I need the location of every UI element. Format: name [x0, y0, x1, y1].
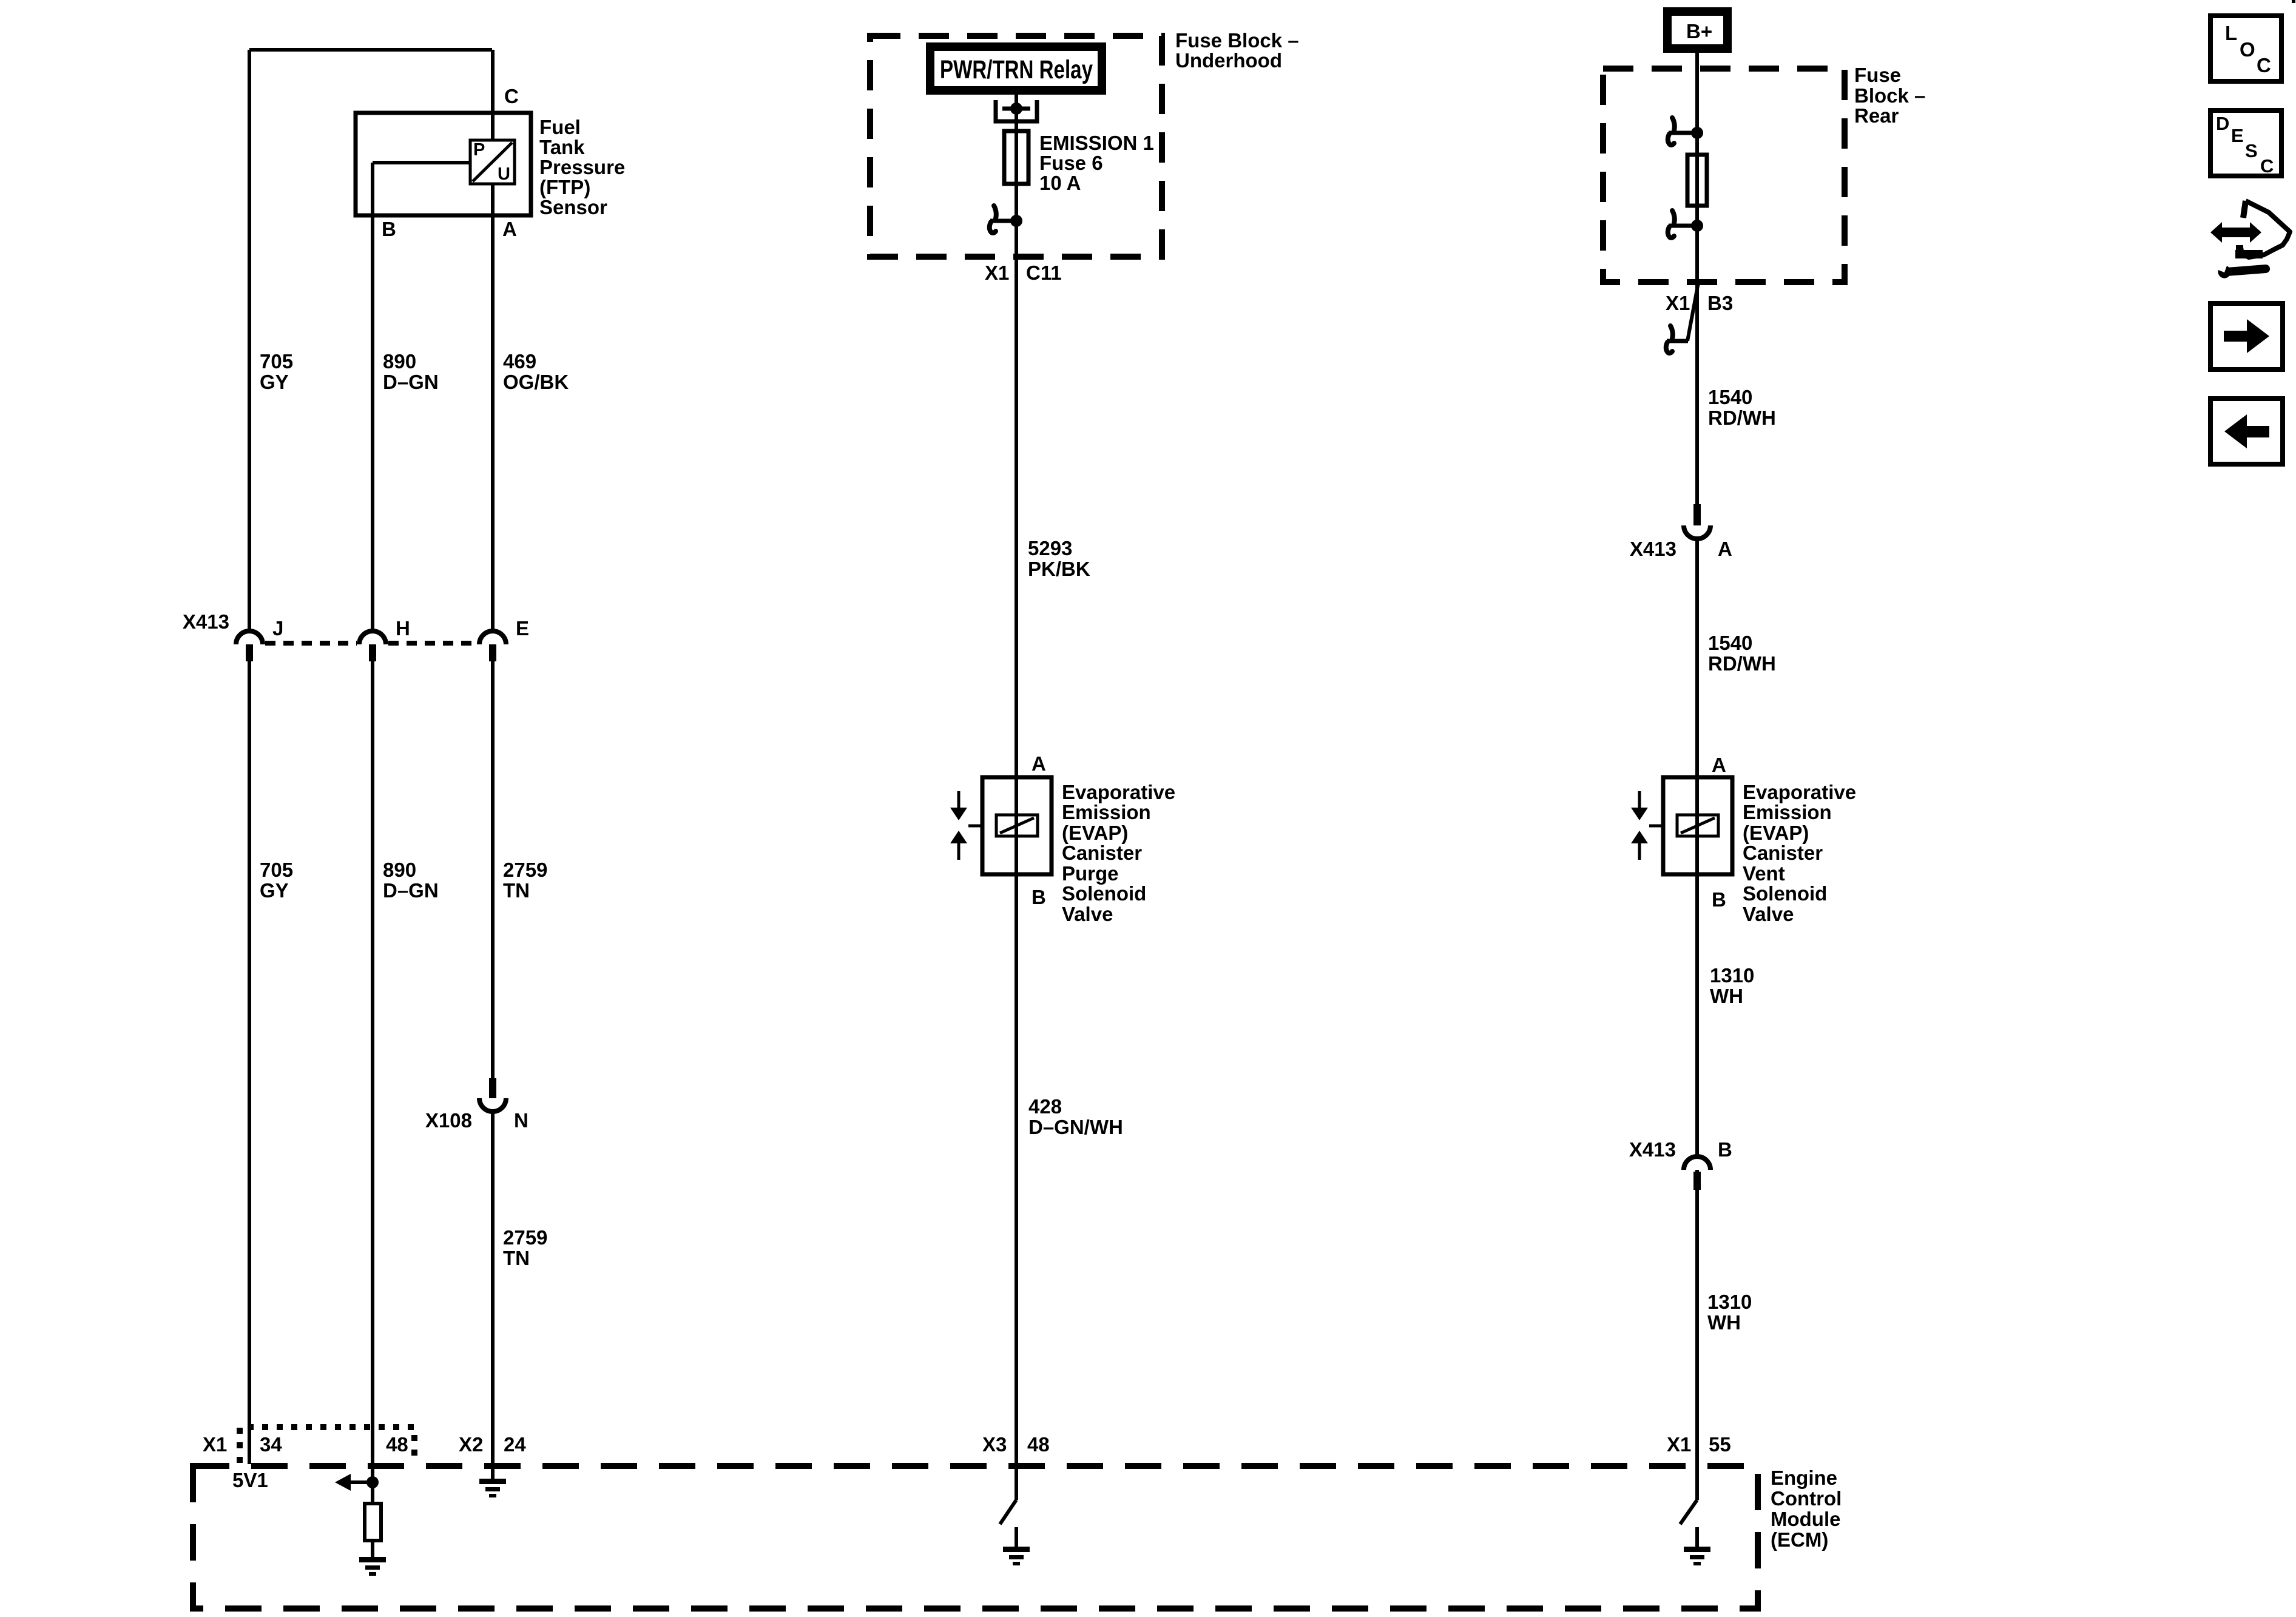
svg-text:D: D [2216, 113, 2229, 134]
svg-text:U: U [498, 164, 510, 184]
svg-text:5293: 5293 [1028, 537, 1072, 559]
svg-text:Fuel: Fuel [539, 116, 581, 138]
svg-text:469: 469 [503, 350, 536, 373]
svg-text:48: 48 [1027, 1433, 1050, 1456]
svg-text:890: 890 [383, 350, 416, 373]
svg-text:L: L [2225, 22, 2237, 44]
svg-text:H: H [396, 617, 410, 640]
svg-text:X413: X413 [1630, 538, 1676, 560]
svg-text:705: 705 [260, 350, 293, 373]
svg-text:24: 24 [504, 1433, 526, 1456]
svg-text:N: N [514, 1109, 528, 1132]
svg-text:X108: X108 [425, 1109, 472, 1132]
svg-text:WH: WH [1707, 1311, 1741, 1334]
svg-text:J: J [272, 617, 283, 640]
svg-text:D–GN/WH: D–GN/WH [1028, 1116, 1123, 1138]
svg-text:X2: X2 [459, 1433, 483, 1456]
svg-text:Engine: Engine [1771, 1467, 1837, 1489]
svg-text:EMISSION 1: EMISSION 1 [1039, 132, 1154, 154]
svg-text:PK/BK: PK/BK [1028, 558, 1090, 580]
svg-text:428: 428 [1028, 1095, 1062, 1118]
svg-text:Vent: Vent [1743, 862, 1785, 885]
svg-text:B: B [1712, 888, 1726, 911]
svg-text:Fuse Block –: Fuse Block – [1175, 29, 1299, 52]
svg-text:1310: 1310 [1707, 1291, 1752, 1313]
svg-text:X3: X3 [982, 1433, 1007, 1456]
svg-text:1540: 1540 [1708, 632, 1752, 654]
svg-text:Emission: Emission [1062, 801, 1151, 823]
svg-text:E: E [2231, 125, 2244, 146]
svg-text:Rear: Rear [1854, 104, 1899, 127]
svg-text:Pressure: Pressure [539, 156, 625, 178]
svg-text:TN: TN [503, 1247, 530, 1269]
svg-text:55: 55 [1709, 1433, 1731, 1456]
svg-text:Solenoid: Solenoid [1062, 882, 1146, 905]
svg-text:B: B [1032, 886, 1046, 908]
svg-text:Fuse 6: Fuse 6 [1039, 152, 1103, 174]
svg-text:GY: GY [260, 879, 289, 902]
svg-text:RD/WH: RD/WH [1708, 652, 1776, 675]
svg-text:E: E [516, 617, 529, 640]
svg-text:10 A: 10 A [1039, 172, 1081, 194]
svg-text:X413: X413 [1629, 1138, 1676, 1161]
svg-text:Control: Control [1771, 1487, 1842, 1510]
svg-text:(FTP): (FTP) [539, 176, 590, 198]
svg-text:B: B [382, 218, 396, 240]
svg-text:TN: TN [503, 879, 530, 902]
svg-text:C: C [2257, 54, 2271, 76]
svg-text:890: 890 [383, 859, 416, 881]
svg-text:Evaporative: Evaporative [1743, 781, 1856, 803]
svg-text:X413: X413 [183, 610, 229, 633]
svg-text:S: S [2245, 140, 2258, 161]
svg-text:X1: X1 [1666, 292, 1690, 314]
svg-text:1310: 1310 [1710, 964, 1754, 987]
svg-text:(EVAP): (EVAP) [1062, 822, 1128, 844]
svg-text:Sensor: Sensor [539, 196, 607, 218]
svg-text:D–GN: D–GN [383, 371, 439, 393]
svg-text:Tank: Tank [539, 136, 585, 158]
svg-text:(EVAP): (EVAP) [1743, 822, 1809, 844]
svg-text:WH: WH [1710, 985, 1743, 1007]
svg-text:O: O [2240, 38, 2255, 61]
svg-text:X1: X1 [203, 1433, 227, 1456]
svg-text:X1: X1 [1667, 1433, 1691, 1456]
svg-text:A: A [1718, 538, 1732, 560]
svg-text:B: B [1718, 1138, 1732, 1161]
svg-text:A: A [502, 218, 517, 240]
svg-text:(ECM): (ECM) [1771, 1528, 1828, 1551]
svg-text:GY: GY [260, 371, 289, 393]
svg-text:Block –: Block – [1854, 84, 1925, 107]
svg-text:2759: 2759 [503, 1226, 547, 1249]
svg-text:OG/BK: OG/BK [503, 371, 569, 393]
svg-text:A: A [1712, 754, 1726, 776]
svg-text:48: 48 [386, 1433, 408, 1456]
svg-text:Canister: Canister [1062, 842, 1142, 864]
svg-text:D–GN: D–GN [383, 879, 439, 902]
svg-text:A: A [1032, 752, 1046, 775]
svg-text:P: P [473, 140, 485, 160]
svg-text:Canister: Canister [1743, 842, 1823, 864]
svg-text:PWR/TRN Relay: PWR/TRN Relay [940, 55, 1093, 84]
svg-text:B+: B+ [1686, 20, 1712, 42]
svg-text:Module: Module [1771, 1508, 1840, 1530]
svg-text:Fuse: Fuse [1854, 64, 1901, 86]
svg-text:Valve: Valve [1743, 903, 1794, 925]
svg-text:5V1: 5V1 [232, 1469, 268, 1491]
svg-text:Purge: Purge [1062, 862, 1119, 885]
svg-text:RD/WH: RD/WH [1708, 407, 1776, 429]
svg-text:X1: X1 [985, 262, 1009, 284]
svg-text:2759: 2759 [503, 859, 547, 881]
svg-text:Solenoid: Solenoid [1743, 882, 1827, 905]
svg-text:Valve: Valve [1062, 903, 1113, 925]
svg-text:705: 705 [260, 859, 293, 881]
svg-text:Evaporative: Evaporative [1062, 781, 1175, 803]
svg-text:B3: B3 [1707, 292, 1733, 314]
svg-text:34: 34 [260, 1433, 282, 1456]
svg-text:C: C [504, 85, 519, 107]
svg-text:1540: 1540 [1708, 386, 1752, 408]
svg-text:Emission: Emission [1743, 801, 1832, 823]
svg-text:C: C [2260, 155, 2274, 177]
svg-text:Underhood: Underhood [1175, 49, 1282, 72]
svg-text:C11: C11 [1026, 262, 1062, 284]
